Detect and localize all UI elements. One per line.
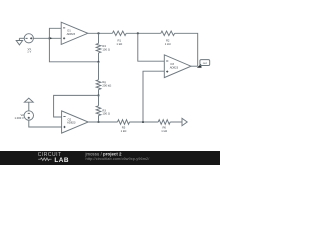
svg-text:AD823: AD823 [170,65,179,69]
node A junction [98,61,100,63]
junction top of chain [98,32,100,34]
resistor Rg 200 kOhm [96,80,111,90]
node flag "out" [197,60,210,68]
svg-text:100 Ω: 100 Ω [102,112,109,116]
wire node B to O2 - input (feedback) [54,95,99,117]
wire R2 to output node (feedback) [175,33,198,66]
resistor R2 1 kOhm [161,31,175,46]
wire R6 to ground [170,121,182,123]
watermark bar [0,151,220,165]
op-amp O1 AD823 [61,22,88,44]
bottom chain junction [98,121,100,123]
wire R4 to node A [98,53,100,62]
wire R3 to bottom rail [98,116,100,123]
wire Rg to node B [98,90,100,96]
voltage source V1 1 V [24,34,33,54]
junction arrow on node [49,37,53,40]
svg-text:R1: R1 [118,38,122,42]
wire R1/R2 junction down to O3 - input [138,33,165,61]
CircuitLab logo [38,152,69,164]
svg-text:R5: R5 [122,126,126,130]
node B junction [98,95,100,97]
svg-text:AD823: AD823 [67,32,76,36]
svg-text:1 V: 1 V [27,49,31,53]
ground (right, rotated) [182,118,187,125]
junction to O3 - input [137,32,139,34]
wire O2 output to R5 [88,121,117,123]
svg-text:1 kΩ: 1 kΩ [165,42,171,46]
wire V2 to O2 + input [29,120,62,127]
resistor R4 100 Ohm [96,43,110,53]
svg-text:1 kΩ: 1 kΩ [116,42,122,46]
voltage source V2 1.000 V [15,111,34,120]
svg-text:R2: R2 [166,38,170,42]
resistor R3 100 Ohm [96,106,110,116]
svg-text:out: out [203,61,207,65]
resistor R5 1 kOhm [118,120,130,133]
svg-text:http://circuitlab.com/c6w9xp-y: http://circuitlab.com/c6w9xp-y96m2/ [86,157,151,161]
attribution text [85,152,151,161]
wire node B to R3 [98,95,100,105]
op-amp O2 AD823 [62,111,89,133]
wire chain top to R4 [98,33,100,43]
wire R5/R6 junction up to O3 + input [143,71,164,122]
wire R1 to R2 [126,32,161,34]
junction to O3 + input [142,121,144,123]
ground (V2, pointing up) [24,98,33,111]
resistor R1 1 kOhm [112,31,126,46]
svg-text:1 kΩ: 1 kΩ [121,129,127,133]
svg-text:200 kΩ: 200 kΩ [102,83,111,87]
svg-text:1.000 V: 1.000 V [15,116,24,120]
wire O3 output to node [191,65,198,67]
ground (V1) [16,38,24,45]
op-amp O3 AD823 [164,55,191,78]
svg-text:R6: R6 [162,126,166,130]
svg-text:AD823: AD823 [67,121,76,125]
svg-text:100 Ω: 100 Ω [102,47,109,51]
wire O1 output to R1 [88,32,113,34]
wire node A to O1 - input (feedback) [49,28,98,62]
svg-text:1 kΩ: 1 kΩ [161,129,167,133]
wire V1 to op-amp O1 + input [33,37,61,39]
svg-text:LAB: LAB [54,157,69,164]
resistor R6 1 kOhm [158,120,170,133]
wire R5 to R6 [130,121,159,123]
wire node A to Rg [98,62,100,80]
